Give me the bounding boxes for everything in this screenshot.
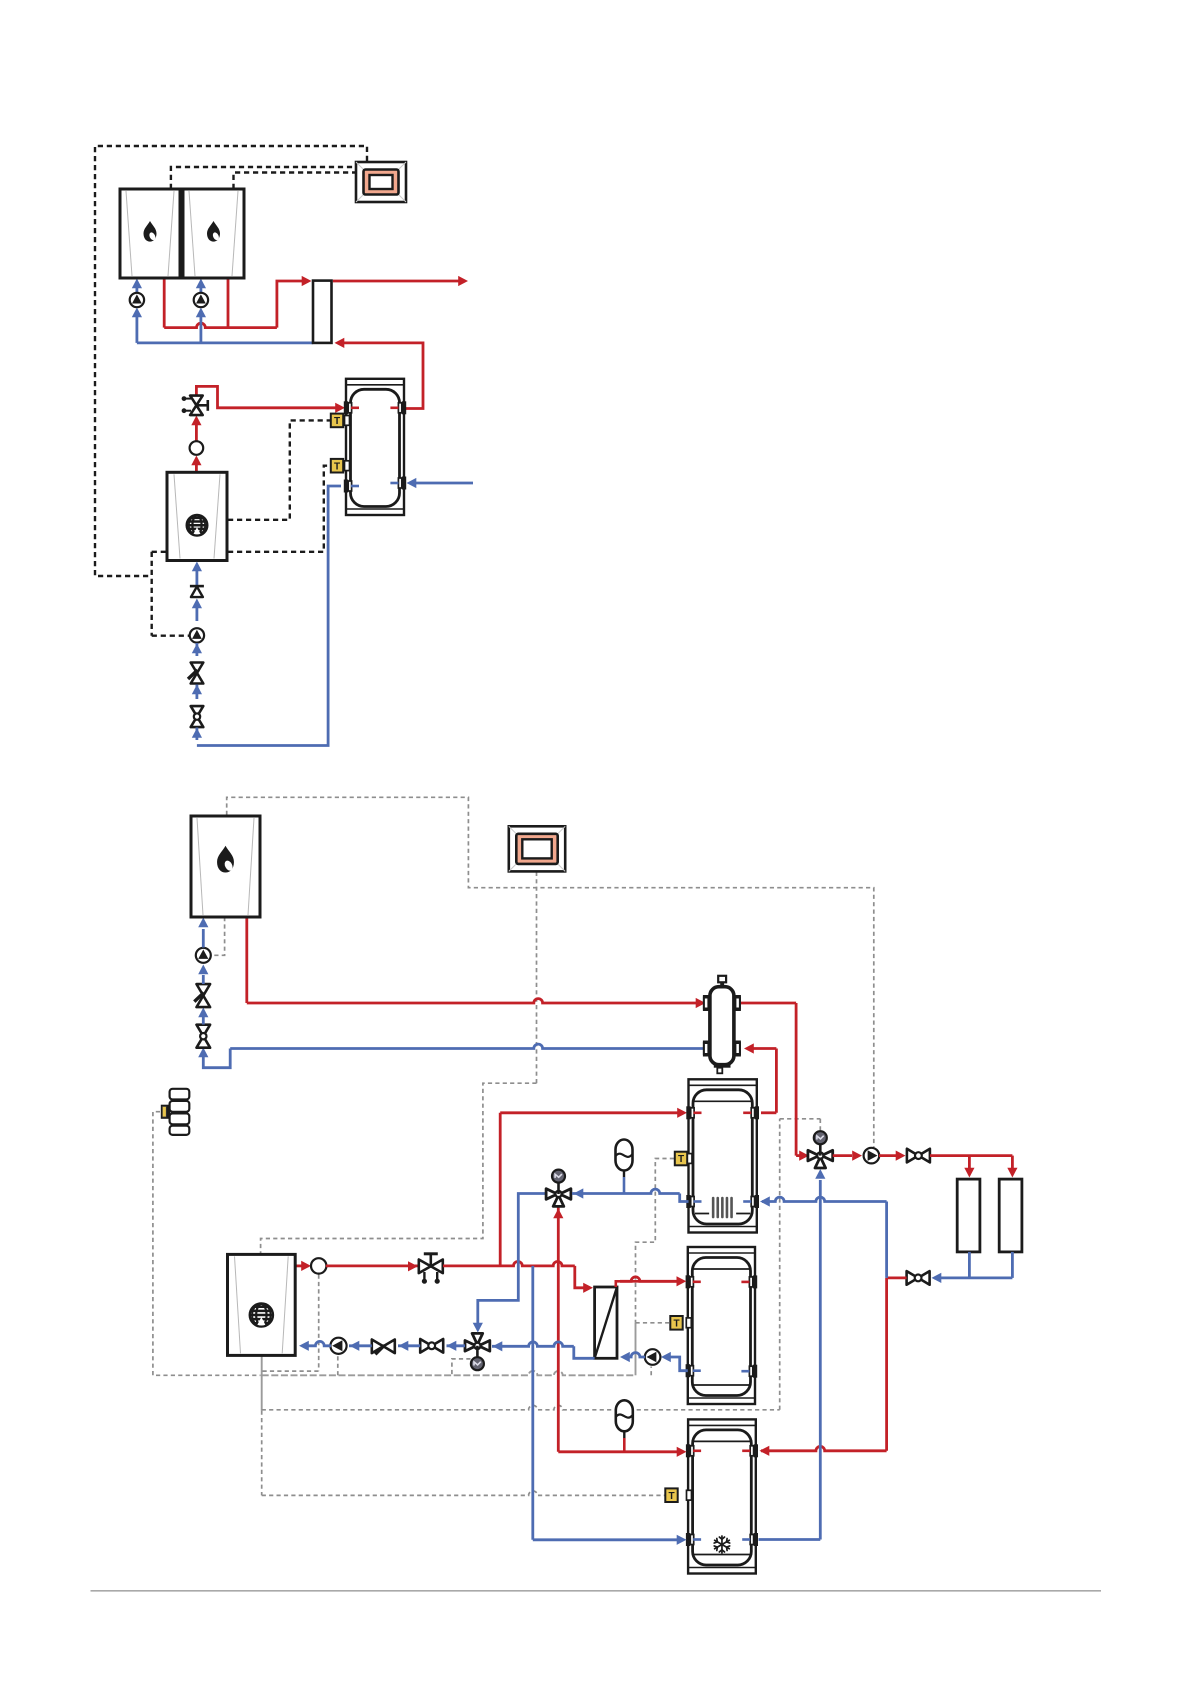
wire: red return from tank DHW — [341, 343, 423, 409]
sensor T3 tank TK1 — [675, 1152, 687, 1166]
radiator R1 — [957, 1179, 980, 1252]
control line: boiler B3 bus to pump P4 — [227, 797, 874, 1147]
pump P2 — [194, 293, 208, 307]
arrow into HP2 return — [299, 1341, 309, 1351]
wire: blue riser pump P1 — [135, 315, 138, 343]
sensor flange TK1 — [687, 1154, 692, 1164]
arrow into exchanger hot — [583, 1283, 593, 1293]
wire: red P4 to gate GV3 — [879, 1154, 896, 1157]
wire: blue exchanger out to valve V3 — [574, 1346, 595, 1358]
pump P3 — [190, 628, 204, 642]
arrow flow outlet — [458, 276, 468, 286]
sensor T5 tank TK3 — [665, 1488, 677, 1502]
arrow into tank cold right — [407, 478, 417, 488]
arrow into pump P2 — [196, 308, 206, 318]
footer rule — [91, 1590, 1102, 1592]
control line: HP1 to tank sensor T2 — [228, 466, 330, 552]
wire: blue P2 to boiler B2 — [199, 288, 202, 293]
arrow into tank TK1 hot — [677, 1108, 687, 1118]
3-way valve V0 — [190, 396, 203, 406]
wire: blue GV5 to lockshield LS3 — [398, 1344, 420, 1347]
arrow into tank TK3 cold — [677, 1535, 687, 1545]
gauge circle — [190, 441, 204, 455]
wire: blue cold feed right — [410, 482, 474, 485]
wire: red flow riser to header — [277, 281, 303, 328]
port TK1 right hot — [755, 1106, 759, 1119]
arrow into boiler B2 — [196, 279, 206, 289]
arrow into V2 bottom — [553, 1209, 563, 1219]
control line: boiler B2 to controller U1 — [234, 173, 357, 190]
control line: gray bus to exchanger pump P5 — [262, 1371, 636, 1375]
wire: blue riser mid — [195, 685, 198, 700]
wire: blue P6 to HP2 — [307, 1341, 331, 1345]
control line: tank sensor T4 stub — [636, 1322, 670, 1324]
wire: blue tank TK1 to valve V2 — [680, 1194, 689, 1202]
sensor T4 tank TK2 — [670, 1316, 682, 1330]
control line: bottom bus to valve V1 — [262, 1405, 780, 1409]
port separator bottom-left — [703, 1041, 710, 1057]
arrow into LS2 — [198, 1008, 208, 1018]
heat pump HP1 — [167, 472, 227, 560]
wire: red V0 elbow to tank — [196, 386, 337, 407]
arrow into pump P6 — [350, 1341, 360, 1351]
buffer tank TK0 — [346, 379, 404, 515]
boiler B2 — [183, 189, 244, 278]
controller U2 — [509, 826, 565, 871]
pump P5 — [645, 1349, 661, 1365]
arrow into tank TK3 hot right — [760, 1446, 770, 1456]
control line: boiler B3 to pump PB stub — [212, 917, 225, 955]
arrow into P3 — [192, 644, 202, 654]
arrow into header return — [335, 338, 345, 348]
arrow into header top — [302, 276, 312, 286]
arrow into LS3 — [399, 1341, 409, 1351]
arrow into HP1 — [192, 562, 202, 572]
arrow into tank TK2 hot — [677, 1276, 687, 1286]
motor valve MV1 — [419, 1260, 431, 1274]
valve V2 3-way with actuator — [546, 1189, 557, 1200]
lockshield valve LS3 — [372, 1340, 384, 1354]
control line: dashed bus left — [95, 146, 367, 576]
sensor flange T2 — [345, 461, 350, 471]
pump P4 — [864, 1148, 880, 1164]
wire: blue P1 to boiler B1 — [135, 288, 138, 293]
control line: boiler B1 to controller U1 — [171, 167, 356, 189]
valve V3 3-way with actuator — [465, 1341, 476, 1352]
pump P6 — [330, 1338, 346, 1354]
wire: blue drop from red main — [531, 1266, 534, 1540]
wire: blue pump P3 riser — [195, 643, 198, 656]
boiler B1 — [120, 189, 180, 278]
port separator top-left — [703, 995, 710, 1011]
svg-text:T: T — [334, 461, 340, 472]
controller U1 — [356, 162, 406, 202]
arrow into tank TK1 return — [760, 1196, 770, 1206]
wire: blue return to tank TK1 — [885, 1202, 888, 1278]
port tank TK0 right hot — [402, 401, 406, 414]
port tank TK0 left hot — [344, 401, 348, 414]
low-loss header H1 — [313, 281, 332, 343]
wire: red drain valve to exchanger — [443, 1262, 575, 1266]
port TK1 left hot — [686, 1106, 690, 1119]
tank TK1 heating — [689, 1079, 757, 1232]
wire: red flow boiler B2 drop — [227, 277, 230, 328]
port TK3 left hot — [686, 1444, 690, 1457]
wire: red flow manifold run — [164, 323, 277, 327]
port tank TK0 left cold — [344, 480, 348, 493]
arrow into V2 right — [574, 1188, 584, 1198]
arrow into gauge — [191, 456, 201, 466]
arrow into check — [192, 599, 202, 609]
port tank TK0 right cold — [402, 477, 406, 490]
arrow into GV1 — [192, 728, 202, 738]
wire: red gauge to drain valve — [326, 1265, 419, 1268]
wire: blue check to HP1 — [195, 580, 198, 586]
wire: blue V1 bottom riser — [819, 1180, 822, 1540]
wire: red radiator feed — [930, 1154, 1013, 1157]
arrow into V1 bottom — [815, 1169, 825, 1179]
plate heat exchanger HX1 — [595, 1287, 617, 1358]
tank TK2 DHW — [688, 1247, 755, 1404]
wire: red HP2 riser to tank TK1 — [499, 1113, 502, 1265]
wire: red tank TK1 to separator return — [761, 1111, 776, 1114]
arrow into gate GV3 — [896, 1151, 906, 1161]
wire: blue separator to boiler B3 — [230, 1044, 703, 1048]
arrow into tank TK3 hot — [677, 1447, 687, 1457]
arrow into exchanger cold — [620, 1352, 630, 1362]
control line: outdoor sensor bus — [153, 1112, 261, 1376]
lockshield valve LS2 — [197, 984, 211, 996]
wire: blue P5 to exchanger — [628, 1353, 645, 1357]
wire: red flow boiler B1 drop — [163, 277, 166, 328]
sensor flange TK3 — [687, 1490, 692, 1500]
port TK3 right hot — [754, 1444, 758, 1457]
arrow into valve V0 — [191, 416, 201, 426]
wire: blue pump PB to boiler — [202, 929, 205, 948]
control line: controller U2 stem — [536, 872, 538, 1083]
wire: red return to buffer junction — [887, 1277, 907, 1280]
outdoor unit sensor stack — [170, 1089, 190, 1100]
wire: blue return header to pumps — [137, 341, 313, 344]
arrow into boiler B1 — [132, 279, 142, 289]
gate valve GV5 — [420, 1339, 432, 1353]
arrow into separator return — [744, 1043, 754, 1053]
wire: red return to tank TK3 — [761, 1446, 887, 1450]
port TK2 right cold — [753, 1365, 757, 1378]
svg-text:T: T — [673, 1318, 679, 1329]
arrow into valve V1 — [799, 1151, 809, 1161]
wire: red HP2 outlet — [296, 1265, 309, 1268]
sensor flange T1 — [345, 416, 350, 426]
sensor T1 tank TK0 — [331, 414, 343, 428]
arrow into valve MV1 — [408, 1261, 418, 1271]
port TK1 left cold — [686, 1195, 690, 1208]
svg-text:T: T — [334, 416, 340, 427]
port TK2 right hot — [753, 1275, 757, 1288]
wire: red flow header outlet — [333, 280, 459, 283]
arrow into V3 right — [493, 1341, 503, 1351]
control line: tank sensor T3 chain — [636, 1159, 675, 1323]
port TK2 left cold — [686, 1364, 690, 1377]
expansion vessel EV2 — [616, 1400, 633, 1431]
radiator R2 — [999, 1179, 1022, 1252]
svg-text:T: T — [678, 1154, 684, 1165]
wire: blue gate to lockshield — [202, 1012, 205, 1025]
arrow into radiator R2 — [1007, 1168, 1017, 1178]
port TK2 left hot — [686, 1275, 690, 1288]
wire: red gauge to valve V0 — [195, 424, 198, 442]
gate valve GV2 — [197, 1025, 211, 1037]
wire: blue LS3 to pump P6 — [349, 1344, 372, 1347]
gate valve GV3 — [907, 1149, 919, 1163]
arrow into pump P1 — [132, 308, 142, 318]
wire: blue tank TK2 to pump P5 — [668, 1357, 688, 1371]
arrow into pump PB — [198, 965, 208, 975]
wire: red V2 drop to tank TK3 — [557, 1208, 560, 1452]
arrow into gate GV5 — [447, 1341, 457, 1351]
gauge circle G2 — [311, 1258, 326, 1273]
wire: blue LS2 to pump — [202, 975, 205, 984]
control line: sensor circle and pump P6 stubs — [263, 1370, 319, 1372]
arrow into pump P4 — [852, 1151, 862, 1161]
wire: red V1 to pump P4 — [833, 1154, 852, 1157]
pump P1 — [130, 293, 144, 307]
bump on red TK2 feed — [620, 1277, 683, 1281]
wire: blue bottom loop — [197, 486, 341, 746]
control line: V3 motor stub — [452, 1359, 471, 1375]
arrow into pump P5 — [661, 1352, 671, 1362]
wire: blue riser pump P2 — [199, 315, 202, 343]
gate valve GV4 — [907, 1271, 919, 1285]
wire: red boiler B3 to separator — [245, 916, 248, 1003]
port TK3 right cold — [754, 1533, 758, 1546]
arrow into gate GV4 — [932, 1273, 942, 1283]
pump PB — [196, 948, 211, 963]
control line: P5 stub — [650, 1367, 652, 1376]
wire: red separator to valve V1 — [741, 1002, 796, 1005]
wire: red exchanger to tank TK2 — [616, 1281, 683, 1287]
arrow into tank hot inlet — [335, 403, 345, 413]
control line: HP2 drain bus — [261, 1356, 263, 1411]
arrow into LS1 — [192, 685, 202, 695]
heat pump HP2 — [228, 1254, 296, 1355]
arrow into gate GV2 — [198, 1048, 208, 1058]
svg-text:T: T — [668, 1491, 674, 1502]
control line: HP1 to tank sensor T1 — [228, 420, 330, 519]
control line: bottom bus to tank sensor T5 — [261, 1411, 263, 1496]
arrow into gauge G2 — [301, 1261, 311, 1271]
check valve NRV1 — [190, 585, 204, 588]
control line: branch to heat pump HP1 and pump P3 — [150, 552, 152, 636]
arrow into separator hot — [696, 998, 706, 1008]
arrow into V3 top — [473, 1323, 483, 1333]
arrow into boiler B3 — [198, 918, 208, 928]
port TK3 left cold — [686, 1533, 690, 1546]
port TK1 right cold — [755, 1195, 759, 1208]
wire: blue V2 to V3 link — [478, 1194, 547, 1329]
expansion vessel EV1 — [616, 1140, 633, 1171]
wire: blue V3 to gate GV5 — [447, 1344, 466, 1347]
arrow into radiator R1 — [964, 1168, 974, 1178]
wire: blue radiator returns — [968, 1252, 971, 1278]
gate valve GV1 — [191, 706, 204, 717]
port separator top-right — [734, 995, 741, 1011]
tank TK3 cooling buffer — [688, 1419, 756, 1573]
hydraulic separator SEP — [718, 976, 726, 983]
wire: blue HP1 return riser — [195, 566, 198, 580]
sensor T2 tank TK0 — [331, 459, 343, 473]
wire: red HP1 outlet to gauge — [195, 463, 198, 471]
valve V1 3-way with actuator — [808, 1150, 819, 1161]
lockshield valve LS1 — [191, 663, 204, 674]
wire: blue check riser — [195, 603, 198, 621]
port separator bottom-right — [734, 1041, 741, 1057]
sensor flange TK2 — [686, 1318, 691, 1328]
boiler B3 — [191, 816, 260, 917]
